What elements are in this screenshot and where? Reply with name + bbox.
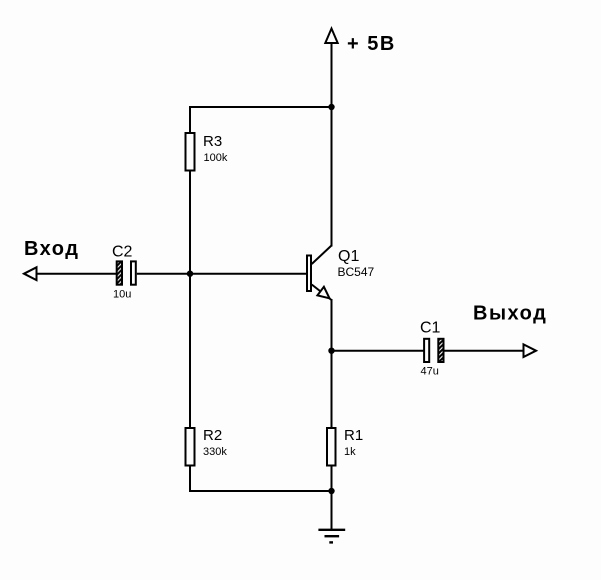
node junction bottom (328, 488, 334, 494)
label Vyhod (output) (473, 303, 547, 325)
wire power vertical (331, 43, 333, 107)
wire emitter vertical (331, 299, 333, 428)
wire C1 to output arrow (445, 350, 536, 352)
svg-text:Вход: Вход (24, 238, 79, 260)
svg-text:C1: C1 (420, 320, 441, 337)
value BC547 (338, 265, 375, 279)
capacitor C2 plate left (hatched) (117, 261, 122, 284)
label R3 (203, 133, 222, 150)
label Vhod (input) (24, 238, 79, 260)
capacitor C1 plate left (424, 339, 429, 362)
svg-text:1k: 1k (344, 446, 356, 458)
transistor Q1 emitter arrow (317, 287, 329, 299)
input arrow (24, 267, 37, 280)
svg-text:C2: C2 (112, 244, 133, 261)
output arrow (524, 344, 537, 357)
svg-text:10u: 10u (113, 289, 131, 301)
node junction output (328, 348, 334, 354)
transistor Q1 emitter lead (312, 285, 332, 301)
node junction top (328, 104, 334, 110)
svg-text:+ 5В: + 5В (347, 33, 396, 55)
node junction input/left rail (187, 271, 193, 277)
wire top horizontal (189, 106, 332, 108)
svg-text:BC547: BC547 (338, 265, 375, 279)
resistor R2 (186, 428, 195, 466)
wire collector vertical (331, 107, 333, 247)
value 1k (344, 446, 356, 458)
label Q1 (338, 248, 359, 265)
label R2 (203, 427, 222, 444)
label C2 (112, 244, 133, 261)
transistor Q1 base bar (307, 256, 311, 292)
wire left rail middle (189, 171, 191, 429)
svg-text:Выход: Выход (473, 303, 547, 325)
label C1 (420, 320, 441, 337)
wire input to C2 (37, 273, 117, 275)
svg-text:100k: 100k (204, 152, 228, 164)
wire R1 to bottom (331, 466, 333, 493)
capacitor C2 plate right (131, 261, 136, 284)
svg-text:330k: 330k (203, 446, 227, 458)
resistor R1 (327, 428, 336, 466)
label R1 (344, 427, 363, 444)
wire output to C1 (332, 350, 425, 352)
value 330k (203, 446, 227, 458)
power arrow +5V (325, 29, 337, 44)
value 100k (204, 152, 228, 164)
resistor R3 (186, 133, 195, 171)
svg-text:R1: R1 (344, 427, 363, 444)
ground (318, 530, 345, 543)
svg-text:47u: 47u (421, 366, 439, 378)
wire bottom horizontal (190, 490, 332, 492)
transistor Q1 collector lead (312, 246, 332, 265)
wire left rail upper (189, 107, 191, 133)
label + 5B (347, 33, 396, 55)
value 10u (113, 289, 131, 301)
wire left rail lower (189, 466, 191, 493)
wire ground stem (331, 491, 333, 530)
wire C2 to base (137, 273, 306, 275)
svg-text:R2: R2 (203, 427, 222, 444)
svg-text:Q1: Q1 (338, 248, 359, 265)
svg-text:R3: R3 (203, 133, 222, 150)
value 47u (421, 366, 439, 378)
capacitor C1 plate right (hatched) (438, 339, 443, 362)
